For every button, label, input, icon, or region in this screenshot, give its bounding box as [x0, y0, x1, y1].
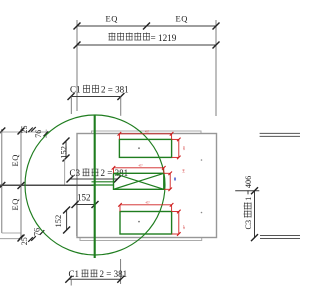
C3 offset 1 label rotated	[244, 176, 254, 230]
svg-text:140: 140	[183, 168, 186, 173]
vertical connector line	[64, 158, 66, 186]
svg-text:197: 197	[183, 225, 186, 230]
tick right	[213, 23, 220, 30]
vent louver top	[119, 139, 171, 157]
svg-text:C3: C3	[244, 220, 253, 230]
tick right	[114, 176, 121, 183]
center mark bottom louver	[138, 221, 140, 223]
top-left staircase ticks	[19, 128, 24, 133]
extension stub bottom left	[70, 279, 72, 285]
center mark top louver	[138, 147, 140, 149]
left horizontal extension middle short	[2, 232, 21, 234]
hood length dimension line	[77, 44, 216, 46]
tick left	[67, 176, 74, 183]
bottom C1 stub	[120, 259, 122, 284]
svg-text:76: 76	[34, 130, 43, 138]
stray dots right	[201, 159, 203, 161]
svg-text:152: 152	[53, 215, 63, 228]
red dim bottom louver vertical	[172, 210, 181, 236]
152 mini dim upper vertical	[65, 141, 67, 158]
svg-text:457: 457	[146, 201, 151, 204]
red dim top louver vertical	[172, 138, 181, 160]
svg-text:= 1219: = 1219	[151, 33, 177, 43]
extension stub left	[70, 97, 72, 115]
svg-text:25: 25	[20, 126, 29, 134]
red dim top louver horizontal	[118, 132, 174, 139]
tick left	[74, 23, 81, 30]
152 diagonal mini dim lower-left	[66, 210, 68, 230]
C3 grid line horizontal	[0, 184, 94, 186]
extension to panel	[76, 205, 78, 237]
bottom C1 dimension line	[69, 278, 121, 280]
right wall bottom double line	[260, 235, 300, 237]
ticks on left chains	[0, 128, 5, 135]
extension stub right	[120, 97, 122, 116]
top EQ dimension extension line left	[76, 20, 78, 111]
svg-text:C1: C1	[70, 85, 81, 95]
right wall top double line	[260, 132, 300, 134]
C3 offset 1 dimension right	[235, 190, 259, 192]
svg-text:25: 25	[20, 237, 29, 245]
blue speck	[174, 178, 176, 181]
svg-text:EQ: EQ	[176, 14, 189, 24]
green circle	[25, 115, 165, 255]
svg-text:152: 152	[58, 146, 68, 159]
backing panel top line	[92, 131, 202, 134]
vertical stub x46	[45, 130, 47, 139]
tick left	[68, 93, 75, 100]
tick right	[117, 93, 124, 100]
svg-text:EQ: EQ	[10, 154, 20, 167]
svg-text:158: 158	[183, 146, 186, 151]
tick middle	[143, 23, 150, 30]
vent louver middle with X	[114, 173, 164, 189]
svg-text:C3: C3	[70, 168, 81, 178]
svg-text:457: 457	[145, 130, 150, 133]
left EQ chain line outer	[1, 129, 3, 233]
tick left	[74, 42, 81, 49]
left horizontal extension top	[0, 131, 46, 133]
svg-text:2 = 381: 2 = 381	[101, 85, 129, 95]
svg-text:EQ: EQ	[106, 14, 119, 24]
hood length label CJK	[109, 33, 116, 41]
svg-text:1 = 406: 1 = 406	[244, 176, 253, 201]
bottom-left staircase ticks	[19, 235, 24, 240]
left horizontal extension bottom	[0, 238, 22, 240]
backing panel bottom line	[80, 238, 202, 241]
vent cover panel	[77, 134, 217, 238]
tick right	[213, 42, 220, 49]
top EQ dimension extension line right	[215, 20, 217, 116]
green centerline vertical	[94, 115, 96, 258]
svg-text:152: 152	[77, 193, 91, 203]
C1 offset top dimension line	[71, 96, 121, 98]
left EQ chain line inner	[20, 129, 22, 238]
green connector lines	[92, 181, 114, 183]
red dim middle louver vertical	[164, 172, 172, 192]
C3 offset 2 dimension line	[70, 178, 118, 180]
red dim bottom louver horizontal	[118, 203, 173, 212]
top EQ dimension line	[77, 25, 216, 27]
svg-text:EQ: EQ	[10, 198, 20, 211]
svg-text:457: 457	[139, 165, 144, 168]
vent louver bottom	[120, 212, 172, 235]
red dim middle louver horizontal	[112, 166, 166, 173]
